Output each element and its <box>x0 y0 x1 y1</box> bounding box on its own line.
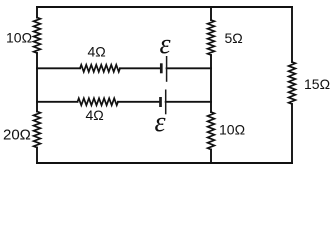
svg-text:15Ω: 15Ω <box>304 76 330 92</box>
svg-text:10Ω: 10Ω <box>6 30 32 46</box>
svg-text:4Ω: 4Ω <box>86 107 104 123</box>
svg-text:5Ω: 5Ω <box>225 30 243 46</box>
svg-text:ε: ε <box>160 29 171 60</box>
svg-text:4Ω: 4Ω <box>88 44 106 60</box>
svg-text:20Ω: 20Ω <box>3 127 31 144</box>
svg-text:ε: ε <box>155 107 166 138</box>
svg-text:10Ω: 10Ω <box>219 122 245 138</box>
